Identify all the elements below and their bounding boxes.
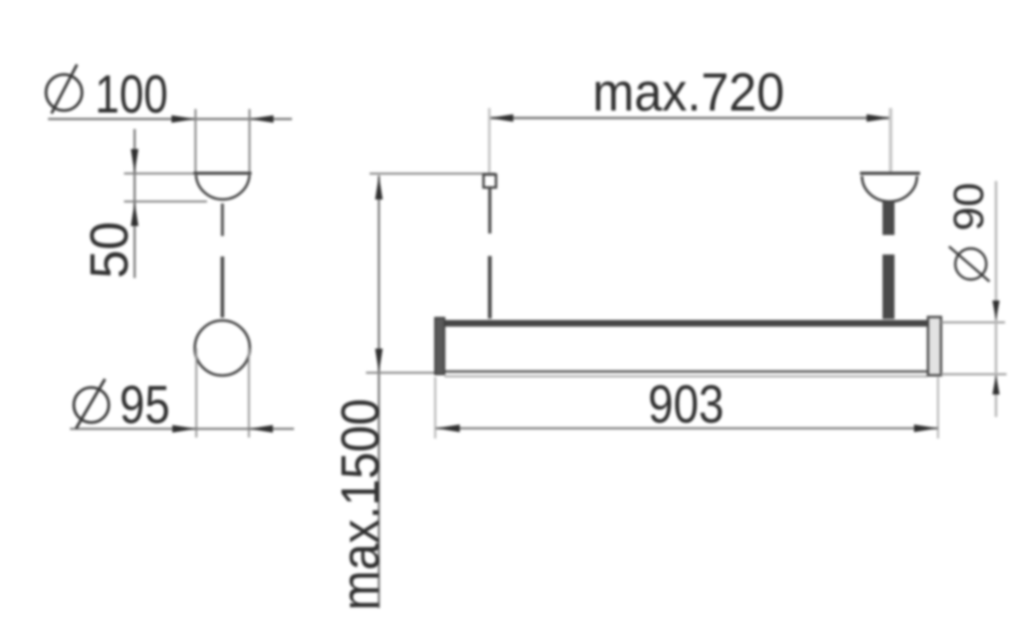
extension line Ø95 right	[248, 348, 250, 438]
arrow Ø90 bottom	[992, 375, 999, 395]
ceiling attachment block	[484, 175, 497, 188]
arrow 50 top	[131, 149, 139, 173]
extension line max.1500 bottom	[366, 372, 442, 374]
extension line 903 left (light)	[434, 377, 436, 439]
arrow 903 left	[436, 425, 460, 433]
arrow Ø100 right	[250, 115, 274, 123]
dimension line Ø95	[70, 428, 294, 430]
suspension rod lower segment (right view)	[883, 255, 895, 320]
svg-text:90: 90	[945, 183, 993, 232]
suspension stem lower segment (left view)	[221, 257, 225, 318]
dimension line max.1500	[378, 176, 380, 609]
canopy dome (left view)	[196, 175, 250, 199]
extension line Ø95 left	[195, 348, 197, 438]
extension line 50 bottom	[124, 201, 207, 203]
dimension line 50	[134, 129, 136, 278]
extension line max.720 right (light)	[889, 108, 892, 172]
arrow max.1500 bottom	[375, 349, 383, 373]
extension line max.720 left (light)	[488, 108, 491, 174]
arrow 903 right	[914, 425, 938, 433]
arrow max.1500 top	[375, 176, 383, 200]
dimension line max.720	[489, 117, 890, 119]
extension line 50 top	[124, 173, 195, 175]
ceiling extension line max.1500 top	[370, 173, 496, 175]
extension line Ø90 top	[941, 321, 1005, 323]
svg-text:95: 95	[120, 375, 171, 435]
diameter symbol for label Ø95	[74, 379, 109, 429]
canopy dome (right view)	[862, 176, 917, 202]
arrow Ø90 top	[992, 301, 999, 321]
dimension line Ø100	[48, 118, 292, 120]
extension line Ø90 bottom	[941, 373, 1007, 375]
dimension line 903	[436, 427, 938, 429]
arrow Ø100 left	[172, 115, 196, 123]
lamp tube top edge	[445, 320, 928, 327]
diameter symbol for label Ø100	[46, 65, 82, 114]
canopy top plate (left view)	[194, 172, 252, 175]
lamp tube bottom edge	[445, 370, 928, 373]
suspension cable lower segment	[488, 256, 492, 319]
svg-text:50: 50	[80, 222, 140, 279]
dimension line Ø90	[995, 181, 997, 417]
lamp tube left end cap	[435, 318, 445, 375]
suspension cable upper segment	[488, 188, 491, 234]
svg-text:max.1500: max.1500	[331, 399, 391, 611]
svg-text:100: 100	[95, 65, 168, 125]
arrow Ø95 right	[249, 425, 273, 433]
svg-text:max.720: max.720	[593, 63, 785, 123]
suspension rod upper segment (right view)	[883, 202, 895, 235]
suspension stem upper segment (left view)	[221, 204, 224, 237]
arrow 50 bottom	[131, 202, 139, 226]
svg-text:903: 903	[648, 375, 724, 435]
diameter symbol for label Ø90 (rotated)	[949, 247, 990, 282]
canopy top plate (right view)	[860, 172, 920, 175]
extension line 903 right (light)	[937, 377, 939, 439]
arrow max.720 right	[867, 114, 891, 122]
lamp tube right end cap	[928, 317, 941, 375]
arrow Ø95 left	[172, 425, 196, 433]
extension line Ø100 left	[195, 109, 197, 173]
arrow max.720 left	[489, 114, 513, 122]
lamp tube bottom inner line	[445, 375, 928, 377]
extension line Ø100 right	[249, 109, 251, 173]
sphere Ø95	[195, 321, 250, 376]
